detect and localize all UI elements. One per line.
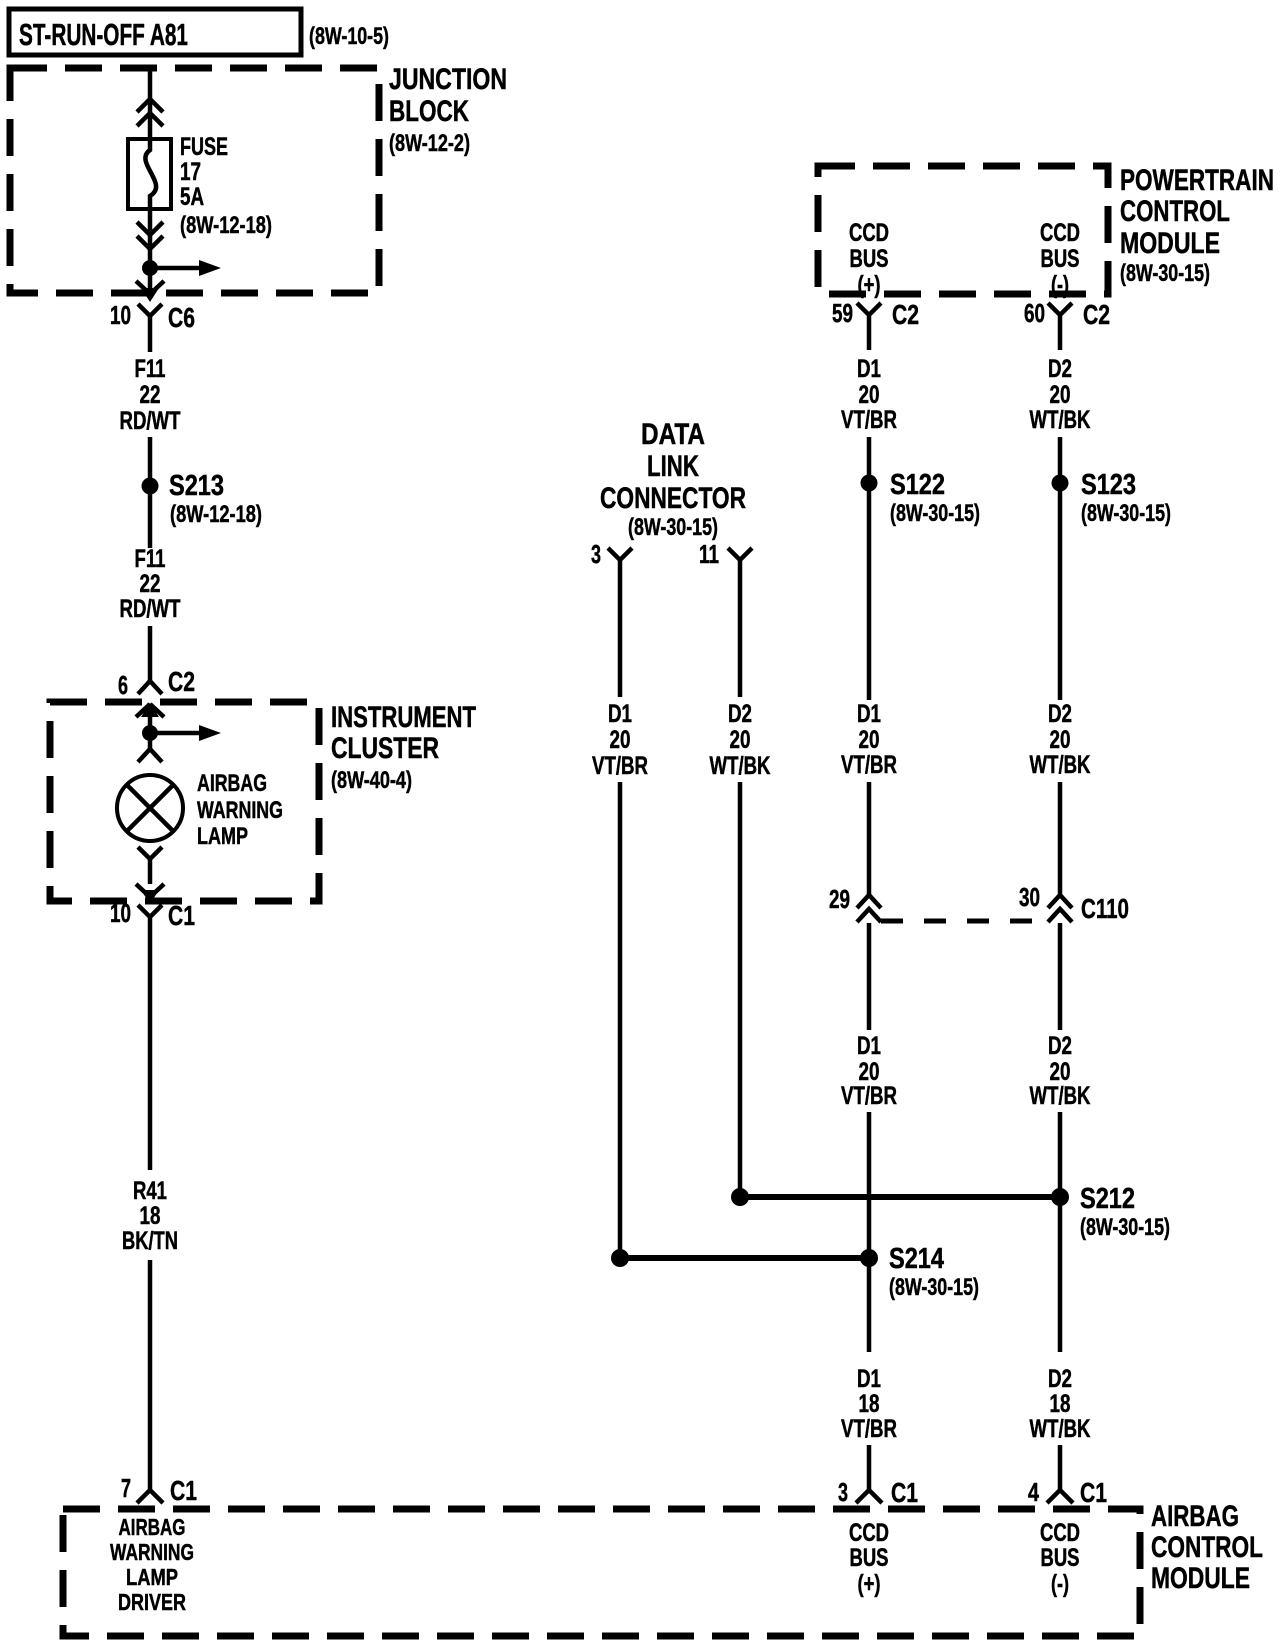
svg-text:BUS: BUS bbox=[850, 1544, 889, 1572]
svg-text:RD/WT: RD/WT bbox=[120, 595, 181, 623]
svg-text:BLOCK: BLOCK bbox=[389, 95, 469, 128]
connector C1 pin 7 bbox=[121, 1473, 197, 1506]
feed box ST-RUN-OFF A81 bbox=[9, 9, 301, 55]
svg-text:R41: R41 bbox=[133, 1177, 167, 1205]
wire below fuse bbox=[148, 209, 153, 268]
ACM airbag warning lamp driver label bbox=[110, 1514, 194, 1615]
svg-text:D2: D2 bbox=[728, 700, 752, 728]
svg-text:INSTRUMENT: INSTRUMENT bbox=[331, 701, 476, 734]
wire D2 below C110 bbox=[1058, 923, 1063, 1030]
svg-text:C2: C2 bbox=[892, 299, 919, 330]
svg-text:C6: C6 bbox=[168, 302, 195, 333]
junction block box bbox=[10, 68, 379, 293]
connector C1 pin 10 bbox=[110, 898, 195, 952]
svg-text:D1: D1 bbox=[857, 1032, 881, 1060]
svg-text:29: 29 bbox=[829, 884, 850, 914]
PCM box bbox=[818, 166, 1108, 294]
svg-text:C2: C2 bbox=[168, 666, 195, 697]
wire R41 lower segment bbox=[148, 1260, 153, 1490]
svg-text:LAMP: LAMP bbox=[126, 1564, 178, 1590]
svg-text:AIRBAG: AIRBAG bbox=[197, 770, 267, 797]
svg-text:30: 30 bbox=[1019, 882, 1040, 912]
svg-text:C110: C110 bbox=[1081, 893, 1129, 924]
wire D2 through S212 junction bbox=[1058, 1112, 1063, 1352]
svg-text:60: 60 bbox=[1024, 298, 1045, 328]
wire D2 18 WT/BK label (bottom) bbox=[1030, 1365, 1091, 1443]
wire D1 through S214 junction bbox=[867, 1112, 872, 1352]
svg-text:CCD: CCD bbox=[1040, 219, 1080, 247]
svg-text:JUNCTION: JUNCTION bbox=[389, 63, 507, 96]
wire D1 20 VT/BR label (low) bbox=[841, 1032, 897, 1110]
splice S123 bbox=[1052, 469, 1172, 527]
svg-text:D1: D1 bbox=[857, 355, 881, 383]
svg-text:MODULE: MODULE bbox=[1120, 227, 1220, 260]
wire D2 20 WT/BK label (mid) bbox=[1030, 700, 1091, 779]
wire D2 into ACM bbox=[1058, 1445, 1063, 1490]
svg-text:BK/TN: BK/TN bbox=[122, 1227, 178, 1255]
svg-text:WT/BK: WT/BK bbox=[710, 752, 771, 780]
DLC pin 11 connector bbox=[699, 539, 752, 697]
svg-text:D2: D2 bbox=[1048, 1032, 1072, 1060]
svg-text:D1: D1 bbox=[857, 700, 881, 728]
svg-text:LINK: LINK bbox=[647, 450, 699, 483]
wire D1 20 VT/BR label (DLC) bbox=[592, 700, 648, 780]
wire to C6 with arrow into connector bbox=[136, 268, 164, 302]
wire segment to S213 bbox=[148, 437, 153, 548]
splice S212 bus wire bbox=[731, 1183, 1170, 1241]
svg-text:(8W-30-15): (8W-30-15) bbox=[1081, 500, 1171, 527]
svg-text:F11: F11 bbox=[135, 355, 166, 383]
svg-text:CCD: CCD bbox=[849, 219, 889, 247]
svg-text:D2: D2 bbox=[1048, 700, 1072, 728]
connector C6 pin 10 bbox=[110, 300, 195, 352]
svg-text:CCD: CCD bbox=[849, 1519, 889, 1547]
wire from DLC pin 3 to S214 bbox=[618, 782, 623, 1258]
svg-text:WARNING: WARNING bbox=[110, 1539, 194, 1565]
PCM label bbox=[1120, 164, 1274, 287]
connector C110 pin 29 bbox=[829, 884, 881, 922]
svg-text:WT/BK: WT/BK bbox=[1030, 406, 1091, 434]
svg-text:VT/BR: VT/BR bbox=[841, 406, 897, 434]
svg-text:(8W-30-15): (8W-30-15) bbox=[890, 500, 980, 527]
wire F11 22 RD/WT lower label bbox=[120, 545, 181, 623]
airbag warning lamp bbox=[117, 775, 183, 841]
svg-text:(8W-10-5): (8W-10-5) bbox=[309, 23, 389, 50]
svg-text:(8W-12-2): (8W-12-2) bbox=[389, 130, 470, 157]
junction dot in cluster bbox=[142, 725, 158, 741]
connector C1 pin 4 bbox=[1028, 1477, 1107, 1508]
svg-text:VT/BR: VT/BR bbox=[841, 751, 897, 779]
svg-text:5A: 5A bbox=[180, 183, 204, 211]
lamp terminal chevron bbox=[138, 749, 162, 762]
svg-text:BUS: BUS bbox=[1041, 245, 1080, 273]
svg-text:AIRBAG: AIRBAG bbox=[119, 1514, 186, 1540]
svg-text:59: 59 bbox=[832, 298, 853, 328]
svg-text:(+): (+) bbox=[858, 271, 881, 299]
fuse F17 bbox=[128, 139, 171, 209]
svg-text:20: 20 bbox=[859, 381, 880, 409]
wire D1 below C110 bbox=[867, 923, 872, 1030]
svg-text:20: 20 bbox=[859, 726, 880, 754]
svg-text:WT/BK: WT/BK bbox=[1030, 1082, 1091, 1110]
svg-text:(8W-12-18): (8W-12-18) bbox=[180, 212, 272, 239]
wire D1 into ACM bbox=[867, 1445, 872, 1490]
svg-text:17: 17 bbox=[180, 158, 201, 186]
svg-text:AIRBAG: AIRBAG bbox=[1151, 1500, 1239, 1533]
lamp label bbox=[197, 770, 283, 850]
svg-text:(+): (+) bbox=[858, 1570, 881, 1598]
svg-text:20: 20 bbox=[610, 726, 631, 754]
svg-text:D2: D2 bbox=[1048, 355, 1072, 383]
wire down to lamp terminal bbox=[148, 733, 153, 750]
wire A81 feed into fuse bbox=[148, 68, 153, 141]
svg-text:BUS: BUS bbox=[1041, 1544, 1080, 1572]
svg-text:(8W-12-18): (8W-12-18) bbox=[170, 501, 262, 528]
svg-text:D1: D1 bbox=[857, 1365, 881, 1393]
instrument cluster box bbox=[50, 702, 319, 901]
svg-text:S213: S213 bbox=[169, 470, 224, 502]
branch arrow right bbox=[150, 260, 221, 276]
svg-text:ST-RUN-OFF A81: ST-RUN-OFF A81 bbox=[19, 17, 188, 52]
wire from DLC pin 11 to S212 bbox=[738, 782, 743, 1197]
connector C110 pin 30 bbox=[1019, 882, 1129, 924]
ACM label bbox=[1151, 1500, 1263, 1595]
wire D2 segment to S123 bbox=[1058, 437, 1063, 700]
instrument cluster label bbox=[331, 701, 476, 794]
fuse label FUSE 17 5A (8W-12-18) bbox=[180, 133, 272, 239]
svg-text:20: 20 bbox=[730, 726, 751, 754]
splice S214 bus wire bbox=[611, 1243, 979, 1301]
svg-text:11: 11 bbox=[699, 539, 719, 569]
wire D2 20 WT/BK label (low) bbox=[1030, 1032, 1091, 1110]
PCM CCD BUS (-) label bbox=[1040, 219, 1080, 299]
svg-text:7: 7 bbox=[121, 1473, 131, 1503]
svg-text:4: 4 bbox=[1028, 1477, 1039, 1507]
splice S213 bbox=[142, 470, 263, 528]
junction block label bbox=[389, 63, 507, 157]
connector C1 pin 3 bbox=[838, 1477, 918, 1508]
svg-text:(-): (-) bbox=[1051, 1570, 1069, 1598]
svg-text:18: 18 bbox=[140, 1202, 161, 1230]
svg-text:(8W-30-15): (8W-30-15) bbox=[889, 1274, 979, 1301]
PCM CCD BUS (+) label bbox=[849, 219, 889, 299]
svg-text:F11: F11 bbox=[135, 545, 166, 573]
svg-text:(8W-30-15): (8W-30-15) bbox=[1120, 260, 1210, 287]
junction dot in junction block bbox=[142, 260, 158, 276]
DLC title bbox=[600, 418, 746, 541]
wire D2 20 WT/BK label (DLC) bbox=[710, 700, 771, 780]
inline connection chevrons below fuse bbox=[137, 222, 163, 249]
svg-text:CCD: CCD bbox=[1040, 1519, 1080, 1547]
svg-text:10: 10 bbox=[110, 300, 131, 330]
svg-text:CONNECTOR: CONNECTOR bbox=[600, 482, 746, 515]
svg-text:CONTROL: CONTROL bbox=[1151, 1531, 1263, 1564]
svg-text:VT/BR: VT/BR bbox=[841, 1415, 897, 1443]
svg-text:VT/BR: VT/BR bbox=[841, 1082, 897, 1110]
svg-text:3: 3 bbox=[591, 539, 601, 569]
svg-text:18: 18 bbox=[1050, 1390, 1071, 1418]
wire D1 20 VT/BR label (mid) bbox=[841, 700, 897, 779]
svg-text:CLUSTER: CLUSTER bbox=[331, 732, 439, 765]
ACM CCD BUS (-) label bbox=[1040, 1519, 1080, 1598]
svg-text:C1: C1 bbox=[891, 1477, 918, 1508]
svg-text:LAMP: LAMP bbox=[197, 823, 248, 850]
wire R41 upper segment bbox=[148, 952, 153, 1170]
svg-text:C1: C1 bbox=[1080, 1477, 1107, 1508]
svg-text:20: 20 bbox=[1050, 726, 1071, 754]
lamp bottom terminal and exit arrow bbox=[136, 847, 164, 904]
C110 dashed link bbox=[881, 919, 1048, 924]
svg-text:CONTROL: CONTROL bbox=[1120, 195, 1230, 228]
svg-text:(8W-30-15): (8W-30-15) bbox=[628, 514, 718, 541]
wire D1 segment to S122 bbox=[867, 437, 872, 700]
svg-text:C1: C1 bbox=[168, 900, 195, 931]
wire D1 18 VT/BR label (bottom) bbox=[841, 1365, 897, 1443]
svg-text:RD/WT: RD/WT bbox=[120, 407, 181, 435]
svg-text:20: 20 bbox=[1050, 381, 1071, 409]
wire D2 to C110 bbox=[1058, 782, 1063, 896]
inline connection chevrons above fuse bbox=[137, 99, 163, 126]
wire segment to C2 bbox=[148, 626, 153, 681]
svg-text:22: 22 bbox=[140, 570, 161, 598]
svg-text:10: 10 bbox=[110, 898, 131, 928]
svg-text:C1: C1 bbox=[170, 1475, 197, 1506]
svg-text:22: 22 bbox=[140, 381, 161, 409]
svg-text:D2: D2 bbox=[1048, 1365, 1072, 1393]
wire D1 to C110 bbox=[867, 782, 872, 896]
wire D2 20 WT/BK label (PCM top) bbox=[1030, 355, 1091, 434]
svg-text:(8W-30-15): (8W-30-15) bbox=[1080, 1214, 1170, 1241]
connector C2 pin 6 bbox=[118, 666, 195, 700]
svg-text:(8W-40-4): (8W-40-4) bbox=[331, 767, 412, 794]
svg-text:BUS: BUS bbox=[850, 245, 889, 273]
svg-text:DRIVER: DRIVER bbox=[118, 1589, 186, 1615]
wire F11 22 RD/WT upper label bbox=[120, 355, 181, 435]
svg-text:6: 6 bbox=[118, 670, 128, 700]
svg-text:3: 3 bbox=[838, 1477, 848, 1507]
wire D1 20 VT/BR label (PCM top) bbox=[841, 355, 897, 434]
DLC pin 3 connector bbox=[591, 539, 632, 697]
svg-text:C2: C2 bbox=[1083, 299, 1110, 330]
svg-text:MODULE: MODULE bbox=[1151, 1562, 1250, 1595]
svg-text:WT/BK: WT/BK bbox=[1030, 751, 1091, 779]
svg-text:S123: S123 bbox=[1081, 469, 1136, 501]
svg-text:18: 18 bbox=[859, 1390, 880, 1418]
svg-text:VT/BR: VT/BR bbox=[592, 752, 648, 780]
svg-text:WT/BK: WT/BK bbox=[1030, 1415, 1091, 1443]
svg-text:D1: D1 bbox=[608, 700, 632, 728]
splice S122 bbox=[861, 469, 981, 527]
cluster entry arrow up bbox=[136, 703, 164, 733]
svg-text:S212: S212 bbox=[1080, 1183, 1135, 1215]
airbag control module box bbox=[63, 1509, 1140, 1636]
connector C2 pin 59 bbox=[832, 298, 919, 350]
svg-text:S122: S122 bbox=[890, 469, 945, 501]
svg-text:POWERTRAIN: POWERTRAIN bbox=[1120, 164, 1274, 197]
svg-text:DATA: DATA bbox=[641, 418, 705, 451]
svg-text:S214: S214 bbox=[889, 1243, 944, 1275]
wire R41 18 BK/TN label bbox=[122, 1177, 178, 1255]
connector C2 pin 60 bbox=[1024, 298, 1110, 350]
svg-text:WARNING: WARNING bbox=[197, 797, 283, 824]
ACM CCD BUS (+) label bbox=[849, 1519, 889, 1598]
svg-text:(-): (-) bbox=[1051, 271, 1069, 299]
branch arrow right in cluster bbox=[150, 725, 221, 741]
svg-text:FUSE: FUSE bbox=[180, 133, 228, 161]
